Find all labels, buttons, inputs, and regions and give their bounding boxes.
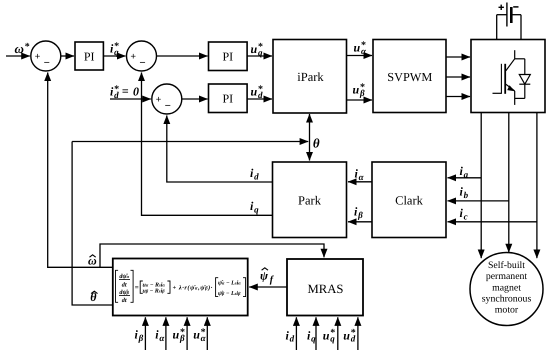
svg-text:=: = bbox=[135, 283, 139, 291]
svg-text:u: u bbox=[343, 328, 350, 342]
svg-text:b: b bbox=[464, 190, 469, 200]
svg-text:u: u bbox=[353, 83, 360, 97]
svg-text:*: * bbox=[351, 328, 356, 339]
svg-text:dt: dt bbox=[122, 297, 127, 304]
svg-text:u: u bbox=[251, 85, 258, 99]
svg-text:dt: dt bbox=[122, 281, 127, 288]
svg-text:β: β bbox=[357, 210, 363, 220]
svg-text:PI: PI bbox=[84, 49, 95, 63]
svg-text:β: β bbox=[138, 333, 144, 343]
svg-text:+: + bbox=[35, 51, 41, 62]
svg-text:Park: Park bbox=[298, 193, 322, 207]
svg-text:ψ̂β − Lsiβ: ψ̂β − Lsiβ bbox=[218, 290, 241, 297]
svg-text:iPark: iPark bbox=[297, 70, 324, 84]
svg-text:ψ̂α − Lsiα: ψ̂α − Lsiα bbox=[218, 280, 241, 287]
svg-text:d: d bbox=[290, 334, 295, 344]
svg-text:*: * bbox=[330, 328, 335, 339]
svg-text:permanent: permanent bbox=[486, 271, 528, 282]
svg-text:*: * bbox=[114, 84, 119, 95]
svg-text:Self-built: Self-built bbox=[488, 260, 525, 271]
svg-text:synchronous: synchronous bbox=[482, 294, 532, 305]
svg-text:q: q bbox=[254, 204, 259, 214]
svg-text:*: * bbox=[25, 41, 30, 52]
svg-text:q: q bbox=[311, 334, 316, 344]
svg-text:−: − bbox=[165, 100, 171, 112]
svg-text:magnet: magnet bbox=[492, 282, 521, 293]
svg-text:*: * bbox=[201, 327, 206, 338]
svg-text:Clark: Clark bbox=[395, 193, 424, 207]
svg-text:u: u bbox=[323, 328, 330, 342]
svg-text:ω: ω bbox=[15, 41, 24, 56]
svg-text:−: − bbox=[139, 57, 145, 69]
svg-text:*: * bbox=[258, 84, 263, 95]
svg-text:uα − Rsiα: uα − Rsiα bbox=[143, 282, 166, 289]
svg-text:=: = bbox=[122, 84, 129, 98]
svg-text:dψ̂β: dψ̂β bbox=[119, 289, 129, 296]
svg-text:*: * bbox=[180, 327, 185, 338]
svg-text:a: a bbox=[464, 169, 469, 179]
svg-text:PI: PI bbox=[222, 50, 233, 64]
svg-text:θ: θ bbox=[313, 136, 320, 151]
svg-text:+: + bbox=[156, 94, 162, 105]
svg-text:−: − bbox=[44, 57, 50, 69]
svg-text:*: * bbox=[360, 82, 365, 93]
svg-text:u: u bbox=[193, 328, 200, 342]
svg-text:*: * bbox=[114, 41, 119, 52]
svg-text:0: 0 bbox=[133, 84, 139, 98]
svg-text:+: + bbox=[130, 51, 136, 62]
svg-text:motor: motor bbox=[495, 305, 519, 316]
svg-text:*: * bbox=[361, 40, 366, 51]
svg-text:MRAS: MRAS bbox=[308, 282, 344, 296]
svg-text:+ λ·r(ψ̄α,ψ̄β)·: + λ·r(ψ̄α,ψ̄β)· bbox=[173, 284, 213, 291]
svg-text:uβ − Rsiβ: uβ − Rsiβ bbox=[143, 288, 166, 295]
svg-text:c: c bbox=[464, 211, 468, 221]
svg-text:*: * bbox=[258, 41, 263, 52]
svg-text:u: u bbox=[354, 41, 361, 55]
svg-text:PI: PI bbox=[222, 92, 233, 106]
svg-text:SVPWM: SVPWM bbox=[387, 70, 432, 84]
svg-text:d: d bbox=[254, 171, 259, 181]
svg-text:u: u bbox=[173, 328, 180, 342]
svg-text:u: u bbox=[251, 42, 258, 56]
svg-text:dψ̂α: dψ̂α bbox=[119, 273, 129, 280]
